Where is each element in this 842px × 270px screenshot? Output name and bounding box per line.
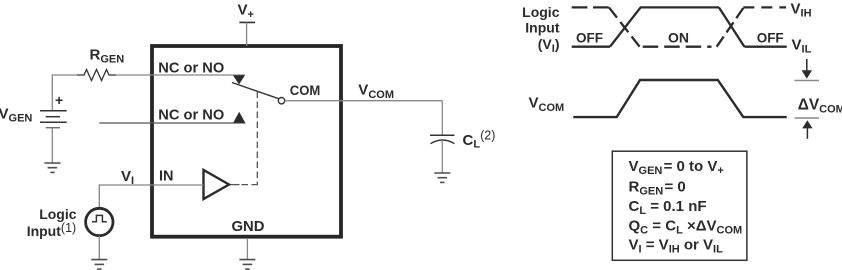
svg-text:VGEN = 0 to V+: VGEN = 0 to V+ [629,158,724,177]
buffer output stub [229,184,240,186]
logic waveform dashed bottom (ON) [643,46,712,48]
ground (logic input) [91,260,107,270]
wire VGEN to resistor [52,75,77,111]
svg-text:Input(1): Input(1) [27,221,76,239]
resistor RGEN [77,70,116,81]
svg-text:+: + [55,92,63,108]
NC contact triangle (top, pointing down) [233,75,245,84]
svg-text:NC or NO: NC or NO [158,59,224,76]
wire logic input to IN [99,185,203,208]
tick top (VCOM high ref) [795,80,820,82]
VCOM waveform [573,80,786,117]
svg-text:ΔVCOM: ΔVCOM [798,96,842,115]
svg-text:GND: GND [232,218,265,235]
crossover 2 falling diagonal [719,7,745,46]
svg-text:VIL: VIL [792,37,812,56]
wire COM to CL [285,100,443,102]
wire pulse source to ground [98,236,100,259]
battery VGEN plate 1 [40,110,67,112]
svg-text:OFF: OFF [576,31,603,46]
wire GND to ground [246,238,248,259]
svg-text:Logic: Logic [522,4,560,20]
svg-text:COM: COM [290,82,321,98]
svg-text:ON: ON [668,31,689,46]
battery VGEN plate 4 [46,127,60,129]
svg-text:CL(2): CL(2) [463,128,496,150]
COM pole circle [278,98,284,104]
logic waveform dashed top left [572,6,609,8]
wire resistor to NC contact [116,74,245,76]
svg-text:VGEN: VGEN [0,106,32,125]
svg-text:V+: V+ [238,2,254,21]
tick bottom (VCOM low ref) [795,117,820,119]
svg-text:VI = VIH or VIL: VI = VIH or VIL [629,237,724,256]
up arrow head [802,120,812,128]
svg-text:CL = 0.1 nF: CL = 0.1 nF [629,198,707,217]
svg-text:VCOM: VCOM [358,82,394,102]
logic waveform dashed top right [743,6,786,8]
crossover 1 rising diagonal [610,7,641,46]
svg-text:VCOM: VCOM [529,94,565,114]
logic waveform solid top (ON level) [640,6,719,8]
svg-text:OFF: OFF [757,31,784,46]
svg-text:VIH: VIH [791,1,812,20]
crossover 2 rising diagonal (dashed trace) [717,8,744,47]
svg-text:(VI): (VI) [538,36,560,55]
capacitor CL top plate [430,134,455,136]
dashed actuator link horizontal [242,184,258,186]
svg-text:RGEN: RGEN [90,47,125,66]
wire battery to ground [51,128,53,163]
svg-text:RGEN = 0: RGEN = 0 [629,179,686,198]
ground (CL) [434,173,450,182]
wire capacitor to ground [441,140,443,173]
driver buffer triangle [204,170,230,199]
up arrow line [806,128,808,139]
crossover 1 falling diagonal (dashed trace) [609,7,640,46]
svg-text:QC = CL ×ΔVCOM: QC = CL ×ΔVCOM [629,218,743,237]
switch arm [232,83,279,99]
V+ power bar [239,21,255,23]
IC box U1 [152,46,341,237]
svg-text:VI: VI [121,168,134,187]
dashed actuator link vertical [256,92,258,185]
svg-text:IN: IN [159,168,174,185]
logic waveform solid bottom left (OFF level) [572,46,610,48]
logic waveform solid bottom right [744,46,786,48]
ground (battery) [44,163,60,172]
svg-text:Input: Input [525,20,560,36]
ground (GND pin) [239,260,255,270]
wire to NC contact 2 [99,122,245,124]
down arrow line [806,59,808,72]
svg-text:Logic: Logic [39,206,77,222]
logic input pulse source [86,208,113,235]
notes box [612,151,747,260]
pulse glyph [92,215,107,221]
battery VGEN plate 2 [46,116,60,118]
wire V+ to box [246,23,248,46]
NC contact triangle (bottom, pointing up) [233,112,245,123]
wire to capacitor [441,101,443,135]
svg-text:NC or NO: NC or NO [158,106,224,123]
capacitor CL curved plate [431,140,455,144]
battery VGEN plate 3 [40,121,67,123]
down arrow head [802,70,812,78]
